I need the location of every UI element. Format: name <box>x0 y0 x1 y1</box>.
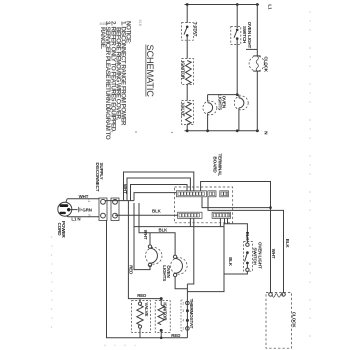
svg-text:GRN: GRN <box>82 207 91 212</box>
svg-text:WHT: WHT <box>271 249 276 259</box>
connector strip2 segment A <box>178 212 202 218</box>
svg-text:L1: L1 <box>268 4 273 10</box>
resistor IGNITOR (wiring) <box>155 301 170 333</box>
power cord plug <box>58 202 72 216</box>
switch OVEN LIGHT SWITCH (wiring) <box>244 242 253 272</box>
terminal block supply 2 <box>111 198 119 221</box>
svg-text:T-STAT: T-STAT <box>193 22 198 37</box>
node N rail <box>185 130 260 132</box>
svg-text:L1: L1 <box>87 199 91 203</box>
svg-text:BLK: BLK <box>285 239 290 249</box>
wire clock rung <box>256 5 258 131</box>
connector strip2 segment B <box>212 212 230 218</box>
svg-text:VALVE: VALVE <box>144 302 149 316</box>
svg-text:CLOCK: CLOCK <box>264 56 269 72</box>
svg-text:SCHEMATIC: SCHEMATIC <box>145 45 155 98</box>
connector strip1 segment B <box>208 191 216 197</box>
wire strip2 stub to thermostat <box>187 218 193 337</box>
speck <box>135 131 136 132</box>
lamp OVEN LIGHTS A (schematic) <box>203 101 217 115</box>
svg-text:WHT: WHT <box>143 230 148 240</box>
wire lamp1 top drop <box>149 233 151 245</box>
wire riser 3 <box>131 185 188 201</box>
svg-text:CLOCK: CLOCK <box>291 312 296 328</box>
scan noise bottom dots <box>104 345 135 347</box>
wire branch to thermostat via 226.5 <box>134 218 224 226</box>
wire L1/N from plug <box>66 215 99 218</box>
resistor VALVE (wiring) <box>132 301 151 333</box>
wire v2 to lamp1 bottom <box>134 203 150 270</box>
wire switch box to thermostat <box>187 274 224 292</box>
svg-text:RED: RED <box>128 265 133 274</box>
speck <box>171 132 172 133</box>
coil clock winding <box>272 294 283 298</box>
connector strip1 segment A <box>176 191 206 197</box>
wire schematic underline <box>145 45 147 97</box>
wire GRN from plug <box>70 209 77 211</box>
svg-text:BLK: BLK <box>228 257 233 267</box>
svg-text:VALVE: VALVE <box>180 103 185 117</box>
wire supply base <box>105 200 134 202</box>
scan noise dotted line right <box>309 11 311 337</box>
connector strip1 segment C <box>220 191 229 197</box>
wire v3 lamps top feed <box>139 203 175 255</box>
thermostat terminals <box>181 300 184 331</box>
svg-text:DISCONNECT: DISCONNECT <box>95 163 100 192</box>
wire lamp2 bottom <box>175 277 187 289</box>
terminal board dashed box <box>174 187 232 223</box>
wire riser 2 <box>127 178 190 201</box>
svg-text:3: 3 <box>182 309 184 313</box>
svg-text:SWITCH: SWITCH <box>253 248 258 266</box>
switch T-STAT <box>182 23 194 41</box>
wire riser 1 to terminal board <box>124 172 194 201</box>
node junction <box>269 206 272 209</box>
lamp OVEN LIGHTS 1 (wiring) <box>145 248 162 265</box>
svg-text:BLK: BLK <box>245 232 250 242</box>
wire WHT from plug <box>66 199 99 203</box>
svg-text:IGNITOR: IGNITOR <box>180 61 185 80</box>
wire clock feed pair B BLK <box>208 197 284 293</box>
svg-text:RED: RED <box>137 293 146 298</box>
svg-text:BLK: BLK <box>159 227 169 232</box>
wire v1 to valve/ignitor top <box>128 201 162 299</box>
node lamp junction <box>236 93 239 96</box>
ground symbol <box>78 207 81 212</box>
wire strip2 stubs to switch box <box>225 218 228 223</box>
wire rung1 vertical <box>186 5 188 131</box>
enclosure oven light switch box <box>224 224 247 274</box>
wire riser 4 <box>134 193 176 201</box>
motor CLOCK (wiring) dashed box <box>266 293 292 349</box>
wire strip2 feed BLK <box>115 214 178 216</box>
svg-text:BOARD: BOARD <box>213 157 218 174</box>
svg-text:RANGE.: RANGE. <box>99 27 106 49</box>
wire clock feed WHT upper <box>201 182 271 293</box>
svg-text:1: 1 <box>182 327 184 331</box>
wire clock feed pair A <box>202 197 271 208</box>
svg-text:RED: RED <box>171 333 180 338</box>
lamp OVEN LIGHTS B (schematic) <box>238 95 240 131</box>
wire stub near clock <box>246 48 257 50</box>
svg-text:LIGHTS: LIGHTS <box>218 94 223 110</box>
svg-text:2: 2 <box>182 301 184 305</box>
svg-text:618: 618 <box>138 20 142 26</box>
resistor VALVE (schematic) <box>182 101 194 125</box>
resistor IGNITOR (schematic) <box>182 59 194 85</box>
transistor junction dots on rails <box>186 3 259 132</box>
svg-text:THERMOSTAT: THERMOSTAT <box>189 299 194 329</box>
svg-text:4: 4 <box>182 319 184 323</box>
svg-text:IGNITOR: IGNITOR <box>163 302 168 321</box>
svg-text:SWITCH: SWITCH <box>242 26 247 44</box>
svg-text:BLK: BLK <box>152 209 162 214</box>
scan noise dotted line left <box>51 236 53 328</box>
svg-text:LIGHTS: LIGHTS <box>162 265 167 281</box>
switch OVEN LIGHT SWITCH (schematic) <box>236 5 238 29</box>
lamp OVEN LIGHTS 2 (wiring) <box>171 258 188 275</box>
svg-text:WHT: WHT <box>123 184 128 194</box>
svg-text:CORD: CORD <box>57 223 62 237</box>
node L1 rail <box>185 4 260 6</box>
motor CLOCK (schematic) <box>249 56 264 71</box>
terminal block supply 1 <box>99 198 107 221</box>
wire v0 to valve bottom <box>107 221 188 338</box>
svg-text:L1 N: L1 N <box>71 216 80 221</box>
wire lamp branch <box>208 95 238 131</box>
